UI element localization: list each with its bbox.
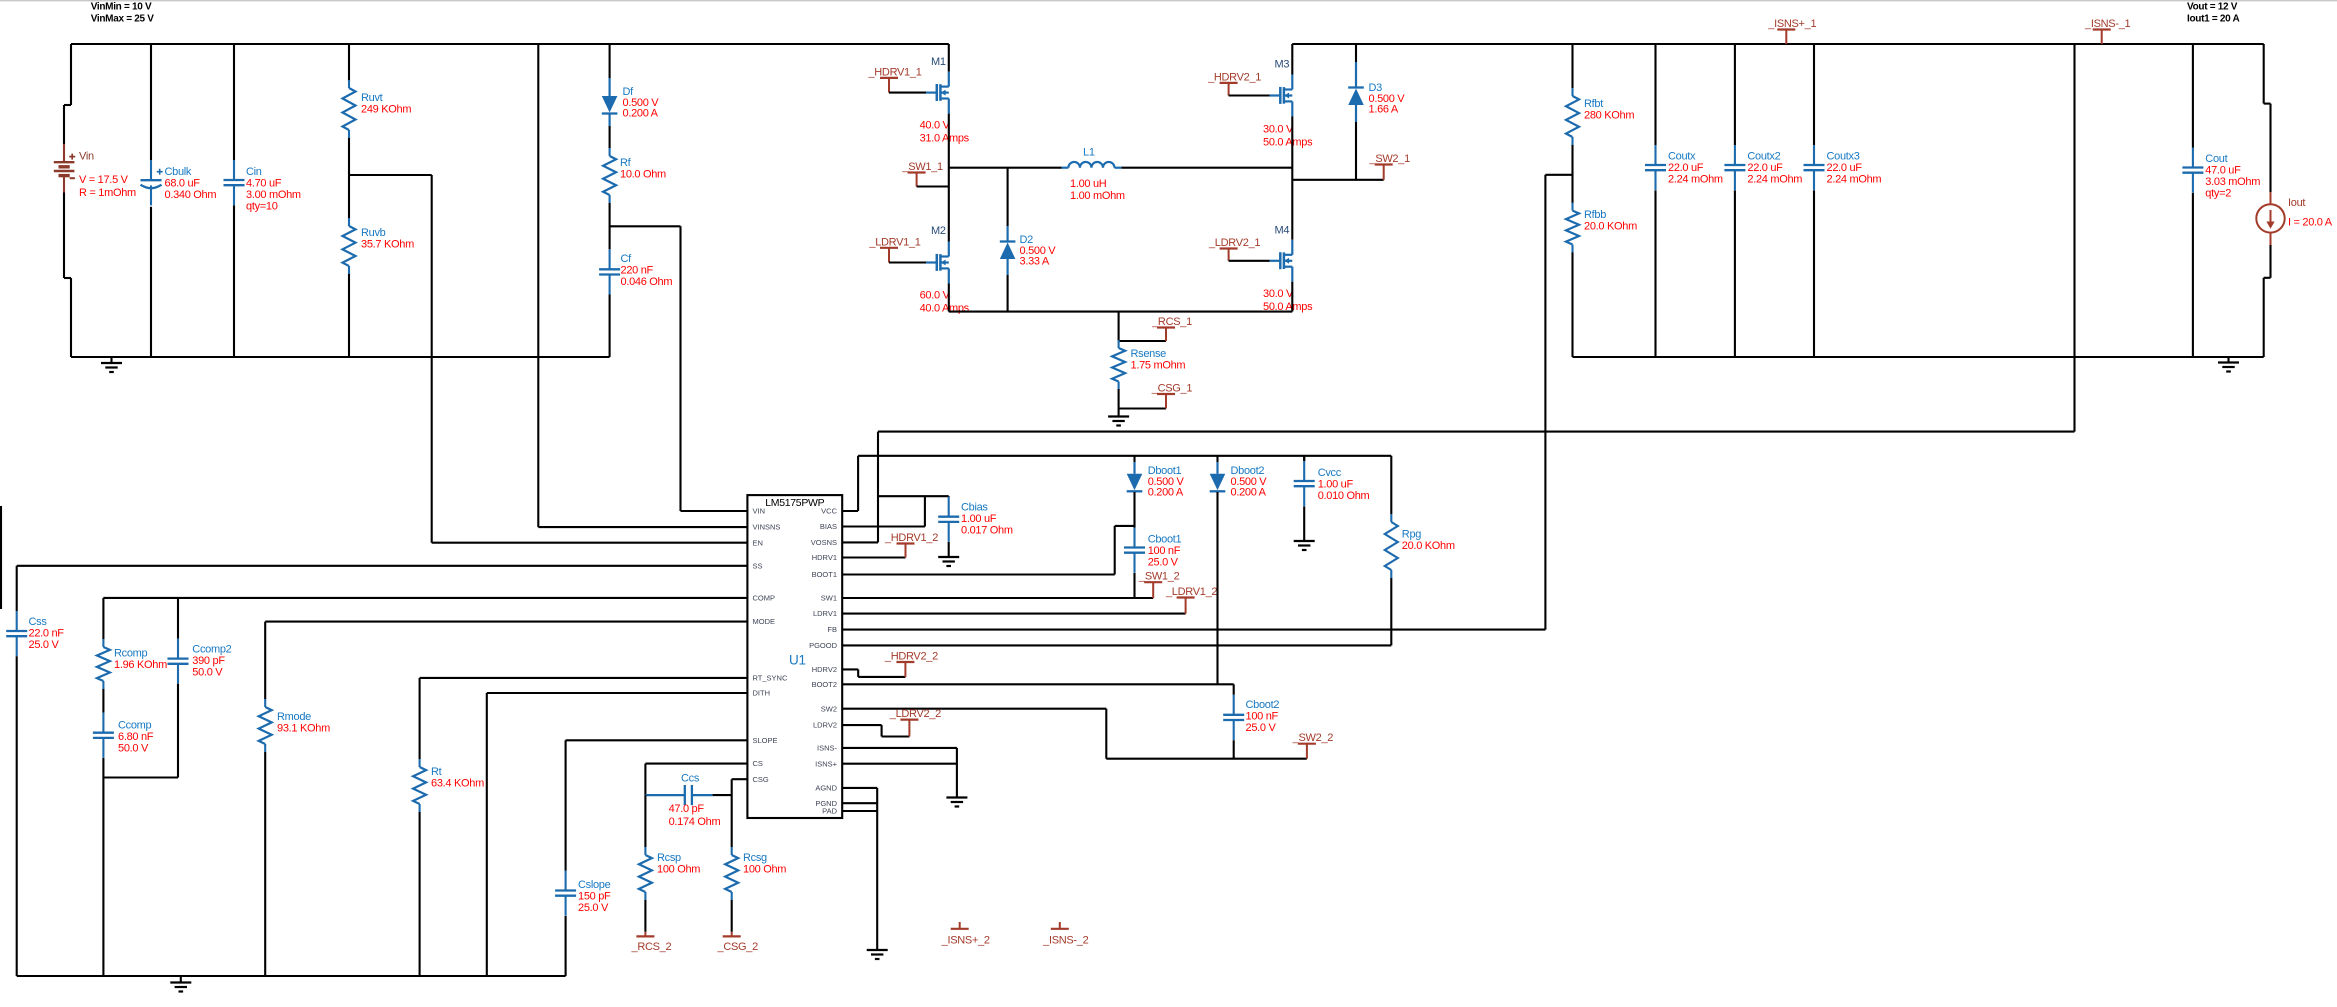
wire <box>1654 44 1656 145</box>
wire <box>956 748 958 797</box>
svg-text:Coutx: Coutx <box>1668 151 1696 163</box>
svg-text:100 Ohm: 100 Ohm <box>743 864 786 876</box>
node _CSG_1 <box>1151 383 1193 409</box>
resistor Rmode <box>259 699 330 752</box>
capacitor Cbias leads <box>948 495 950 498</box>
wire <box>1106 758 1307 760</box>
wire <box>644 795 646 847</box>
capacitor Coutx <box>1645 145 1723 190</box>
wire <box>645 763 747 765</box>
svg-text:Rt: Rt <box>431 766 442 778</box>
resistor Rfbb <box>1566 203 1637 253</box>
ground <box>2218 357 2239 372</box>
svg-text:_HDRV1_2: _HDRV1_2 <box>884 532 938 544</box>
wire <box>948 542 950 557</box>
resistor Rcomp <box>97 639 167 689</box>
svg-text:22.0 uF: 22.0 uF <box>1827 162 1863 174</box>
svg-text:SS: SS <box>753 561 763 570</box>
svg-text:2.24 mOhm: 2.24 mOhm <box>1747 174 1802 186</box>
transistor M2 <box>920 225 970 314</box>
svg-text:50.0 V: 50.0 V <box>118 743 149 755</box>
wire <box>842 644 1391 646</box>
svg-text:Rfbb: Rfbb <box>1584 209 1606 221</box>
svg-text:22.0 nF: 22.0 nF <box>29 628 65 640</box>
IC U1 pin labels <box>753 507 838 816</box>
svg-text:HDRV2: HDRV2 <box>812 665 837 674</box>
svg-text:LDRV1: LDRV1 <box>813 609 837 618</box>
wire <box>16 656 18 976</box>
wire <box>177 598 179 639</box>
svg-text:50.0 V: 50.0 V <box>192 667 223 679</box>
wire <box>102 758 104 976</box>
svg-text:6.80 nF: 6.80 nF <box>118 731 154 743</box>
svg-text:31.0 Amps: 31.0 Amps <box>920 132 970 144</box>
wire <box>565 740 567 870</box>
annotation Vout/Iout1 <box>2187 2 2240 25</box>
svg-text:L1: L1 <box>1083 147 1095 159</box>
wire <box>1545 174 1572 176</box>
diode D2 <box>1000 234 1056 268</box>
wire <box>681 510 748 512</box>
wire <box>842 597 1153 599</box>
capacitor Css <box>6 611 64 656</box>
wire <box>842 556 905 558</box>
diode Dboot2 <box>1210 465 1268 499</box>
capacitor Coutx2 <box>1724 145 1802 190</box>
wire <box>1571 144 1573 204</box>
wire <box>233 44 235 160</box>
svg-text:1.00 uF: 1.00 uF <box>961 513 997 525</box>
wire <box>858 676 905 678</box>
capacitor Cslope <box>555 871 611 916</box>
wire <box>419 678 421 759</box>
diode Df <box>602 86 659 120</box>
svg-text:Cbulk: Cbulk <box>165 166 192 178</box>
node _LDRV2_2 <box>889 708 941 737</box>
svg-text:PAD: PAD <box>822 807 837 816</box>
wire <box>1133 573 1135 598</box>
node _RCS_1 <box>1151 316 1192 341</box>
node _LDRV2_1 <box>1208 237 1260 261</box>
svg-text:35.7 KOhm: 35.7 KOhm <box>361 239 414 251</box>
svg-text:Iout: Iout <box>2288 197 2305 209</box>
svg-text:BOOT2: BOOT2 <box>812 680 837 689</box>
svg-text:3.00 mOhm: 3.00 mOhm <box>246 189 301 201</box>
node _SW2_1 <box>1369 153 1411 180</box>
wire <box>71 356 610 358</box>
svg-text:_SW2_1: _SW2_1 <box>1369 153 1411 165</box>
wire <box>842 802 877 804</box>
svg-text:COMP: COMP <box>753 594 776 603</box>
wire <box>17 975 566 977</box>
svg-text:_LDRV2_1: _LDRV2_1 <box>1208 237 1260 249</box>
node _HDRV1_1 <box>867 67 921 93</box>
svg-text:VIN: VIN <box>753 507 766 516</box>
svg-text:25.0 V: 25.0 V <box>578 902 609 914</box>
wire <box>2192 44 2194 148</box>
svg-text:3.33 A: 3.33 A <box>1020 256 1050 268</box>
wire <box>917 185 949 187</box>
svg-text:_HDRV2_2: _HDRV2_2 <box>884 651 938 663</box>
diode D3 <box>1348 82 1405 116</box>
svg-text:_ISNS-_2: _ISNS-_2 <box>1042 935 1088 947</box>
svg-text:qty=2: qty=2 <box>2205 188 2231 200</box>
wire <box>842 541 878 543</box>
wire <box>889 92 926 94</box>
wire <box>1291 44 1293 75</box>
wire <box>150 44 152 160</box>
transistor M1 <box>920 56 970 144</box>
ground <box>938 557 959 566</box>
svg-text:qty=10: qty=10 <box>246 201 278 213</box>
wire <box>1229 94 1270 96</box>
wire <box>233 205 235 357</box>
node _LDRV1_2 <box>1165 586 1217 614</box>
svg-text:280 KOhm: 280 KOhm <box>1584 110 1634 122</box>
wire <box>842 747 957 749</box>
wire <box>644 900 646 932</box>
svg-text:Rcsg: Rcsg <box>743 852 767 864</box>
wire <box>882 735 910 737</box>
wire <box>1121 167 1292 169</box>
svg-text:150 pF: 150 pF <box>578 891 611 903</box>
svg-text:25.0 V: 25.0 V <box>29 639 60 651</box>
svg-text:Rsense: Rsense <box>1131 348 1167 360</box>
svg-text:Vout = 12 V: Vout = 12 V <box>2187 2 2238 13</box>
svg-text:Iout1 = 20 A: Iout1 = 20 A <box>2187 14 2240 25</box>
svg-text:0.200 A: 0.200 A <box>1148 487 1184 499</box>
svg-text:_RCS_1: _RCS_1 <box>1151 316 1192 328</box>
transistor M3 <box>1263 59 1313 149</box>
svg-text:Ruvb: Ruvb <box>361 227 386 239</box>
wire <box>609 126 611 148</box>
wire <box>1303 506 1305 540</box>
node _ISNS-_2 <box>1042 922 1088 947</box>
wire <box>2263 278 2265 357</box>
svg-text:PGOOD: PGOOD <box>809 641 838 650</box>
svg-text:25.0 V: 25.0 V <box>1246 722 1277 734</box>
svg-text:2.24 mOhm: 2.24 mOhm <box>1668 174 1723 186</box>
svg-text:40.0 V: 40.0 V <box>920 120 951 132</box>
wire <box>538 526 747 528</box>
svg-text:100 nF: 100 nF <box>1148 545 1181 557</box>
wire <box>486 693 488 976</box>
svg-text:93.1 KOhm: 93.1 KOhm <box>277 723 330 735</box>
wire <box>102 689 104 713</box>
wire <box>877 432 879 543</box>
wire <box>103 776 178 778</box>
svg-text:1.00 mOhm: 1.00 mOhm <box>1070 190 1125 202</box>
diode Dboot1 leads <box>1133 456 1135 474</box>
wire <box>1118 312 1120 342</box>
wire <box>679 226 681 511</box>
wire <box>842 810 877 812</box>
node _ISNS+_2 <box>941 922 990 947</box>
wire <box>103 597 747 599</box>
wire <box>1571 252 1573 358</box>
ground <box>1294 541 1315 550</box>
wire <box>102 598 104 639</box>
svg-text:_SW1_2: _SW1_2 <box>1138 571 1180 583</box>
wire <box>949 167 1062 169</box>
svg-text:Cin: Cin <box>246 166 262 178</box>
wire <box>1544 175 1546 630</box>
svg-text:Coutx2: Coutx2 <box>1747 151 1780 163</box>
svg-text:M3: M3 <box>1275 59 1290 71</box>
svg-text:63.4 KOhm: 63.4 KOhm <box>431 778 484 790</box>
svg-text:VCC: VCC <box>821 507 837 516</box>
svg-text:BOOT1: BOOT1 <box>812 570 837 579</box>
svg-text:LM5175PWP: LM5175PWP <box>765 497 824 509</box>
wire <box>2269 104 2271 192</box>
wire <box>610 225 681 227</box>
wire <box>1571 44 1573 88</box>
svg-text:20.0 KOhm: 20.0 KOhm <box>1402 540 1455 552</box>
wire <box>1233 740 1235 759</box>
svg-text:50.0 Amps: 50.0 Amps <box>1263 301 1313 313</box>
svg-text:0.200 A: 0.200 A <box>1231 487 1267 499</box>
svg-text:100 Ohm: 100 Ohm <box>657 864 700 876</box>
wire <box>842 683 1233 685</box>
svg-text:_CSG_2: _CSG_2 <box>717 941 759 953</box>
wire <box>64 104 71 106</box>
diode Df leads <box>608 78 610 126</box>
wire <box>948 114 950 242</box>
wire <box>177 684 179 778</box>
voltage source Vin <box>54 144 136 199</box>
wire <box>2264 103 2271 105</box>
wire <box>1292 179 1383 181</box>
wire <box>1355 44 1357 62</box>
svg-text:VinMin = 10 V: VinMin = 10 V <box>91 2 152 13</box>
svg-text:AGND: AGND <box>815 784 837 793</box>
wire <box>63 105 65 145</box>
svg-text:249 KOhm: 249 KOhm <box>361 104 411 116</box>
resistor Rpg <box>1385 514 1455 578</box>
svg-text:22.0 uF: 22.0 uF <box>1747 162 1783 174</box>
wire <box>857 669 859 677</box>
capacitor Cf <box>599 249 672 294</box>
svg-text:50.0 Amps: 50.0 Amps <box>1263 136 1313 148</box>
wire <box>70 44 72 105</box>
svg-text:CS: CS <box>753 759 763 768</box>
svg-text:VinMax = 25 V: VinMax = 25 V <box>91 14 155 25</box>
svg-text:BIAS: BIAS <box>820 522 837 531</box>
wire <box>17 565 748 567</box>
wire <box>842 629 1545 631</box>
svg-text:SLOPE: SLOPE <box>753 736 778 745</box>
svg-text:390 pF: 390 pF <box>192 655 225 667</box>
svg-text:MODE: MODE <box>753 617 776 626</box>
svg-text:4.70 uF: 4.70 uF <box>246 178 282 190</box>
svg-text:Rfbt: Rfbt <box>1584 98 1603 110</box>
wire <box>1573 356 2264 358</box>
wire <box>2264 277 2271 279</box>
capacitor Cboot1 <box>1124 528 1182 573</box>
top window border line <box>0 0 2337 1</box>
svg-text:SW1: SW1 <box>821 594 837 603</box>
resistor Rf <box>603 148 666 203</box>
current source Iout <box>2256 192 2332 245</box>
wire <box>842 668 858 670</box>
wire <box>842 573 1114 575</box>
capacitor Coutx3 <box>1804 145 1882 190</box>
transistor M4 <box>1263 225 1313 313</box>
wire <box>71 43 949 45</box>
wire <box>566 739 748 741</box>
wire <box>1119 407 1166 409</box>
resistor Rsense <box>1112 340 1185 390</box>
wire <box>731 779 733 847</box>
node _HDRV2_2 <box>884 651 938 677</box>
svg-text:1.96 KOhm: 1.96 KOhm <box>114 659 167 671</box>
wire <box>1813 44 1815 145</box>
svg-text:Rpg: Rpg <box>1402 529 1421 541</box>
svg-text:M1: M1 <box>931 56 946 68</box>
svg-text:I = 20.0 A: I = 20.0 A <box>2288 217 2333 229</box>
diode Dboot2 leads <box>1216 456 1218 474</box>
svg-text:Ruvt: Ruvt <box>361 92 383 104</box>
svg-text:Cboot2: Cboot2 <box>1246 699 1280 711</box>
svg-text:_RCS_2: _RCS_2 <box>631 941 672 953</box>
wire <box>432 542 748 544</box>
node _RCS_2 <box>631 932 672 953</box>
diode D3 leads <box>1355 62 1357 122</box>
capacitor Cvcc <box>1294 456 1370 506</box>
svg-text:100 nF: 100 nF <box>1246 711 1279 723</box>
node _SW1_1 <box>901 161 943 187</box>
svg-text:Ccs: Ccs <box>681 773 700 785</box>
wire <box>878 495 949 497</box>
capacitor Cin <box>224 160 301 213</box>
wire <box>1291 117 1293 240</box>
svg-text:_LDRV2_2: _LDRV2_2 <box>889 708 941 720</box>
wire <box>949 311 1293 313</box>
wire <box>264 752 266 976</box>
svg-text:0.010 Ohm: 0.010 Ohm <box>1318 490 1370 502</box>
annotation VinMin/VinMax <box>91 2 155 25</box>
wire <box>265 621 747 623</box>
wire <box>1007 275 1009 312</box>
ground <box>170 976 191 992</box>
wire <box>876 788 878 950</box>
wire <box>644 764 646 796</box>
wire <box>842 708 1106 710</box>
svg-text:0.174 Ohm: 0.174 Ohm <box>669 816 721 828</box>
wire <box>487 692 748 694</box>
svg-text:Cout: Cout <box>2205 153 2227 165</box>
capacitor Ccomp <box>93 713 154 758</box>
wire <box>2269 245 2271 278</box>
wire <box>1291 282 1293 312</box>
svg-text:60.0 V: 60.0 V <box>920 290 951 302</box>
svg-text:0.340 Ohm: 0.340 Ohm <box>165 189 217 201</box>
svg-text:Cvcc: Cvcc <box>1318 467 1342 479</box>
wire <box>1734 190 1736 357</box>
wire <box>732 778 748 780</box>
svg-text:_CSG_1: _CSG_1 <box>1151 383 1193 395</box>
capacitor Cout <box>2182 148 2260 200</box>
resistor Rcsg <box>725 847 786 900</box>
svg-text:U1: U1 <box>789 653 806 668</box>
svg-text:VOSNS: VOSNS <box>811 538 837 547</box>
wire <box>348 137 350 219</box>
wire <box>565 916 567 976</box>
wire <box>1654 190 1656 357</box>
wire <box>264 622 266 699</box>
svg-text:Rf: Rf <box>620 157 632 169</box>
svg-text:Css: Css <box>29 616 48 628</box>
svg-text:0.200 A: 0.200 A <box>623 108 659 120</box>
capacitor Cvcc leads <box>1303 456 1305 461</box>
wire <box>948 284 950 312</box>
svg-text:47.0 pF: 47.0 pF <box>669 803 705 815</box>
wire <box>1390 456 1392 514</box>
svg-text:LDRV2: LDRV2 <box>813 721 837 730</box>
wire <box>1007 168 1009 226</box>
resistor Rcsp <box>639 847 700 900</box>
inductor L1 <box>1062 147 1125 203</box>
wire <box>63 192 65 279</box>
wire <box>1229 260 1270 262</box>
svg-text:_HDRV1_1: _HDRV1_1 <box>867 67 921 79</box>
wire <box>64 277 71 279</box>
node _SW2_2 <box>1292 732 1334 759</box>
svg-text:_SW2_2: _SW2_2 <box>1292 732 1334 744</box>
svg-text:Rcomp: Rcomp <box>114 648 148 660</box>
wire <box>1292 43 2263 45</box>
wire <box>1119 340 1166 342</box>
wire <box>1133 492 1135 528</box>
svg-text:Ccomp2: Ccomp2 <box>192 644 231 656</box>
wire <box>150 207 152 357</box>
wire <box>842 763 957 765</box>
svg-text:RT_SYNC: RT_SYNC <box>753 674 788 683</box>
svg-text:0.017 Ohm: 0.017 Ohm <box>961 525 1013 537</box>
resistor Rt <box>413 759 484 812</box>
svg-text:_LDRV1_2: _LDRV1_2 <box>1165 586 1217 598</box>
wire <box>420 677 748 679</box>
wire <box>1216 492 1218 684</box>
svg-text:2.24 mOhm: 2.24 mOhm <box>1827 174 1882 186</box>
cropped wire at left edge <box>0 506 2 609</box>
svg-text:47.0 uF: 47.0 uF <box>2205 165 2241 177</box>
svg-text:VINSNS: VINSNS <box>753 523 781 532</box>
wire <box>1233 684 1235 695</box>
svg-text:Cboot1: Cboot1 <box>1148 534 1182 546</box>
svg-text:30.0 V: 30.0 V <box>1263 288 1294 300</box>
resistor Ruvt <box>343 80 412 138</box>
wire <box>1105 709 1107 759</box>
wire <box>537 44 539 527</box>
svg-text:Ccomp: Ccomp <box>118 720 152 732</box>
wire <box>1114 526 1116 575</box>
svg-text:3.03 mOhm: 3.03 mOhm <box>2205 176 2260 188</box>
resistor Rfbt <box>1566 88 1634 145</box>
svg-text:Cf: Cf <box>621 253 633 265</box>
node _ISNS-_1 <box>2084 18 2130 44</box>
wire <box>1734 44 1736 145</box>
resistor Ruvb <box>343 218 415 274</box>
svg-text:68.0 uF: 68.0 uF <box>165 178 201 190</box>
wire <box>858 455 1391 457</box>
svg-text:Rmode: Rmode <box>277 711 311 723</box>
svg-text:M2: M2 <box>931 225 946 237</box>
svg-text:Cslope: Cslope <box>578 879 611 891</box>
svg-text:0.046 Ohm: 0.046 Ohm <box>621 276 673 288</box>
wire <box>419 812 421 976</box>
node _CSG_2 <box>717 932 759 953</box>
